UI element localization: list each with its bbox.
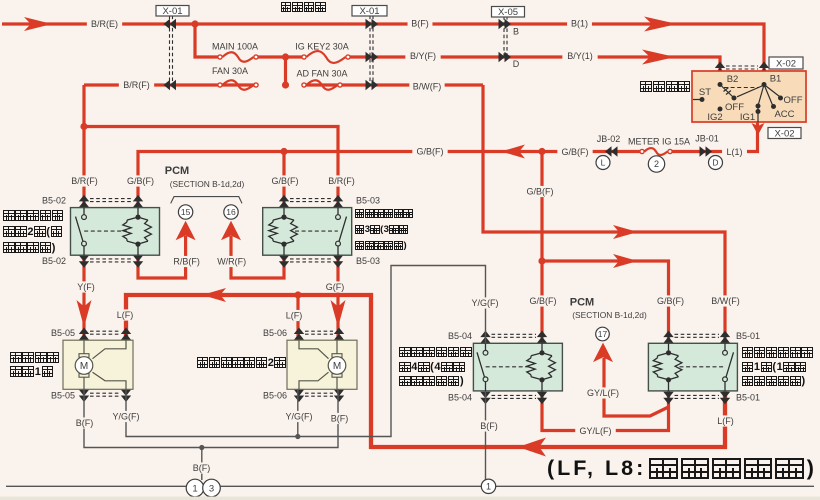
svg-text:Y/G(F): Y/G(F) xyxy=(113,412,140,422)
svg-text:G/B(F): G/B(F) xyxy=(272,176,299,186)
label B/W(F) relay 1 xyxy=(708,295,743,306)
label cooling fan relay No.4 line 2 xyxy=(399,361,465,373)
label cooling fan relay No.3 line 2 xyxy=(355,224,408,235)
svg-text:GY/L(F): GY/L(F) xyxy=(579,426,611,436)
flow arrow Y(F) into motor 1 xyxy=(77,300,92,327)
ignition switch terminal IG1 xyxy=(756,104,761,109)
svg-text:B5-02: B5-02 xyxy=(42,256,66,266)
connector X-05 dashed link xyxy=(504,16,507,57)
svg-text:JB-01: JB-01 xyxy=(695,134,719,144)
relay 2 (cooling fan relay No.2) xyxy=(71,208,160,256)
svg-text:IG1: IG1 xyxy=(740,112,755,123)
label Y/G(F) motor 1 xyxy=(108,411,143,422)
label cooling fan relay No.1 line 1 xyxy=(742,347,813,358)
connector box X-02 top xyxy=(769,57,803,69)
connector box X-01 left xyxy=(156,6,189,17)
relay 2 (cooling fan relay No.2) switch contact xyxy=(76,208,85,256)
relay 4 (cooling fan relay No.4) actuation link xyxy=(486,366,531,368)
svg-text:M: M xyxy=(80,361,88,372)
svg-text:B5-01: B5-01 xyxy=(736,393,760,403)
wire B(F) stub to ground xyxy=(201,448,203,481)
svg-text:3: 3 xyxy=(209,483,214,494)
label cooling fan relay No.3 line 3 xyxy=(355,240,407,251)
connector X-01 pin row3 xyxy=(164,80,177,90)
connector box X-01 right xyxy=(352,6,387,17)
label B(F) motor 2 xyxy=(327,413,352,424)
svg-text:B5-02: B5-02 xyxy=(42,195,66,205)
svg-text:B/R(F): B/R(F) xyxy=(328,176,355,186)
flow arrow B(1) to switch xyxy=(644,17,677,32)
label B(F) relay 4 xyxy=(477,420,502,431)
label Y/G(F) relay 4 xyxy=(467,297,502,308)
ignition switch body xyxy=(692,71,806,122)
connector JB-02 pin xyxy=(605,146,618,156)
connector box X-05 xyxy=(492,7,525,18)
svg-text:B2: B2 xyxy=(727,74,739,85)
connector X-02 pin B1 side xyxy=(759,62,769,75)
ignition switch terminal OFF-right xyxy=(778,96,783,101)
relay 1 (cooling fan relay No.1) coil xyxy=(658,343,679,391)
flow arrow L(F) toward motors xyxy=(202,288,226,302)
label cooling fan relay No.2 line 2 xyxy=(3,226,62,238)
connector B5-02 bottom dashed link of relay 2 xyxy=(90,259,132,262)
svg-text:B(F): B(F) xyxy=(331,414,349,424)
relay 3 (cooling fan relay No.3) coil xyxy=(273,208,294,256)
svg-text:B(1): B(1) xyxy=(571,19,588,29)
svg-text:X-01: X-01 xyxy=(162,6,182,17)
label B(F) ground stub xyxy=(189,462,214,473)
connector B5-02 top pin left of relay 2 xyxy=(79,195,89,208)
label cooling fan relay No.3 line 1 xyxy=(355,209,413,218)
svg-text:B5-04: B5-04 xyxy=(448,331,472,341)
svg-text:ST: ST xyxy=(699,87,711,98)
connector B5-04 top dashed link of relay 4 xyxy=(492,334,537,337)
flow arrow G/B(F) branch xyxy=(613,254,638,268)
connector B5-04 bottom pin left of relay 4 xyxy=(480,392,490,405)
svg-text:L(1): L(1) xyxy=(726,147,742,157)
wire GY/L(F) relay 4 to relay 1 xyxy=(542,392,669,431)
label cooling fan relay No.2 line 3 xyxy=(3,242,55,254)
svg-text:B/Y(F): B/Y(F) xyxy=(410,51,436,61)
ignition switch terminal IG1 lower xyxy=(756,109,761,114)
junction node fuse row 3 xyxy=(282,81,289,88)
svg-text:B/R(F): B/R(F) xyxy=(123,80,150,90)
bottom scan shadow xyxy=(0,497,820,500)
label G/B(F) relay 2 xyxy=(123,175,158,186)
connector B5-01 top pin left of relay 1 xyxy=(663,331,673,344)
connector B5-06 top pin left of fan motor 2 xyxy=(294,328,304,341)
label G/B(F) relay 1 xyxy=(653,295,688,306)
svg-text:15: 15 xyxy=(181,207,191,217)
fuse AD FAN 30A xyxy=(306,80,337,90)
svg-text:B/Y(1): B/Y(1) xyxy=(567,51,593,61)
flow arrow G(F) into motor 2 xyxy=(331,300,346,327)
connector B5-03 top dashed link of relay 3 xyxy=(290,199,332,202)
connector X-01 pin row1 xyxy=(164,19,177,29)
label B5-06 bottom of fan motor 2 xyxy=(260,390,290,401)
label G/B(F) at junction xyxy=(557,146,592,157)
junction node fuse row 2 xyxy=(282,53,289,60)
connector B5-06 bottom pin left of fan motor 2 xyxy=(294,390,304,403)
connector circle 2 xyxy=(648,156,664,172)
ignition switch terminal IG2 xyxy=(718,107,723,112)
svg-text:B5-06: B5-06 xyxy=(263,328,287,338)
connector B5-06 bottom dashed link of fan motor 2 xyxy=(305,393,333,396)
fan motor 1 xyxy=(63,340,133,389)
wire fuse-row interlink vertical xyxy=(284,57,287,85)
connector B5-05 top dashed link of fan motor 1 xyxy=(90,331,120,334)
svg-text:B5-01: B5-01 xyxy=(736,331,760,341)
connector X-01 right pin row1 xyxy=(366,19,379,29)
svg-text:B1: B1 xyxy=(770,73,782,84)
label B/R(F) relay 2 xyxy=(67,175,102,186)
svg-text:G/B(F): G/B(F) xyxy=(530,296,557,306)
connector X-02 pin B2 side xyxy=(715,62,725,75)
svg-text:G/B(F): G/B(F) xyxy=(127,176,154,186)
label G/B(F) relay 4 xyxy=(525,295,560,306)
svg-text:PCM: PCM xyxy=(165,165,189,177)
svg-text:L(F): L(F) xyxy=(117,310,134,320)
label B5-02 bottom of relay 2 xyxy=(39,255,69,266)
svg-text:B/W(F): B/W(F) xyxy=(413,82,442,92)
svg-text:(SECTION B-1d,2d): (SECTION B-1d,2d) xyxy=(170,179,245,189)
label GY/L(F) bottom xyxy=(575,425,616,436)
label ignition key (dian huo yao shi) xyxy=(281,2,326,12)
connector X-05 pin D xyxy=(499,52,512,62)
label B/W(F) row3 xyxy=(409,81,444,92)
connector B5-02 top pin right of relay 2 xyxy=(133,195,143,208)
svg-text:FAN 30A: FAN 30A xyxy=(212,66,248,76)
label B5-03 bottom of relay 3 xyxy=(353,255,383,266)
svg-text:B/R(F): B/R(F) xyxy=(71,176,98,186)
svg-text:PCM: PCM xyxy=(570,296,594,308)
wire B(F) relay 4 to ground xyxy=(485,392,487,487)
connector box X-02 bottom xyxy=(768,128,801,139)
svg-text:Y/G(F): Y/G(F) xyxy=(472,298,499,308)
svg-text:X-05: X-05 xyxy=(498,7,518,18)
connector B5-05 top pin left of fan motor 1 xyxy=(79,328,89,341)
svg-text:G/B(F): G/B(F) xyxy=(417,147,444,157)
connector B5-03 bottom dashed link of relay 3 xyxy=(290,259,332,262)
label G/B(F) relay 3 xyxy=(267,175,302,186)
label B5-03 top of relay 3 xyxy=(353,195,383,206)
svg-text:G/B(F): G/B(F) xyxy=(657,296,684,306)
flow arrow into PCM pin 15 xyxy=(176,221,196,241)
svg-text:M: M xyxy=(333,361,341,372)
flow arrow into PCM pin 16 xyxy=(221,221,241,241)
svg-text:D: D xyxy=(712,158,718,168)
label G(F) xyxy=(323,281,348,292)
connector X-01 left dashed link xyxy=(170,16,173,86)
fan motor 2 motor symbol M xyxy=(332,354,342,358)
wire L(F) run fan motors to relay 1 xyxy=(126,295,725,447)
fan motor 1 motor symbol M xyxy=(79,354,89,358)
label W/R(F) xyxy=(214,256,249,267)
connector B5-04 bottom pin right of relay 4 xyxy=(537,392,547,405)
wire G/B(F) drop to relay 3 xyxy=(282,152,285,208)
label B5-04 bottom of relay 4 xyxy=(445,392,475,403)
svg-text:B(F): B(F) xyxy=(411,19,429,29)
label B/R(F) relay 3 xyxy=(324,175,359,186)
ground connector 1 left xyxy=(186,479,204,497)
relay 2 (cooling fan relay No.2) actuation link xyxy=(84,230,127,232)
connector B5-04 top pin right of relay 4 xyxy=(537,331,547,344)
fuse FAN 30A xyxy=(222,80,253,90)
label B5-05 top of fan motor 1 xyxy=(48,327,78,338)
wire R/B(F) relay 2 to PCM pin 15 xyxy=(138,236,186,278)
svg-text:ACC: ACC xyxy=(774,109,794,120)
connector B5-05 bottom pin left of fan motor 1 xyxy=(79,390,89,403)
connector B5-01 bottom pin left of relay 1 xyxy=(663,392,673,405)
connector B5-02 top dashed link of relay 2 xyxy=(90,199,132,202)
label L(1) xyxy=(722,146,747,157)
label B/R(F) row3 xyxy=(119,79,154,90)
connector B5-05 top pin right of fan motor 1 xyxy=(121,328,131,341)
label fan motor 2 xyxy=(197,357,286,369)
label B/R(E) xyxy=(87,18,122,29)
connector B5-05 bottom dashed link of fan motor 1 xyxy=(90,393,120,396)
junction node G/B branch to relay 1 xyxy=(538,257,545,264)
label cooling fan relay No.1 line 2 xyxy=(742,361,806,373)
svg-text:G(F): G(F) xyxy=(326,282,345,292)
ignition switch terminal B1 xyxy=(762,82,767,87)
svg-text:1: 1 xyxy=(486,482,491,492)
label Y/G(F) motor 2 xyxy=(281,411,316,422)
junction node B/R branch xyxy=(80,123,87,130)
fan motor 1 internal wiring xyxy=(84,340,126,389)
label ignition switch (dian huo kai guan) xyxy=(640,81,690,92)
flow arrow ignition switch output at X-02 xyxy=(752,123,765,135)
connector JB-01 pin xyxy=(700,146,713,156)
relay 1 (cooling fan relay No.1) actuation link xyxy=(680,366,725,368)
svg-text:B(F): B(F) xyxy=(480,421,498,431)
PCM boundary bracket xyxy=(171,197,242,204)
connector circle D xyxy=(709,156,723,170)
svg-text:OFF: OFF xyxy=(784,95,803,106)
wire W/R(F) relay 3 to PCM pin 16 xyxy=(231,236,284,278)
ground connector 3 left xyxy=(203,479,221,497)
PCM pin 15 xyxy=(178,205,192,219)
ignition switch terminal ST xyxy=(700,97,705,102)
svg-text:Y(F): Y(F) xyxy=(77,282,95,292)
connector B5-02 bottom pin right of relay 2 xyxy=(133,255,143,268)
connector B5-01 top dashed link of relay 1 xyxy=(675,334,720,337)
junction node G/B at METER IG branch xyxy=(538,148,545,155)
relay 3 (cooling fan relay No.3) actuation link xyxy=(295,230,338,232)
PCM pin 17 xyxy=(596,327,610,341)
flow arrow L(F) big return arrow xyxy=(518,438,546,457)
connector B5-06 top dashed link of fan motor 2 xyxy=(305,331,333,334)
label Y(F) xyxy=(74,281,99,292)
ignition switch internal contacts and blades xyxy=(693,85,780,123)
wire B(F) rail between motors xyxy=(84,389,338,447)
connector B5-04 top pin left of relay 4 xyxy=(480,331,490,344)
junction node Y/G rail xyxy=(295,434,300,439)
connector circle L xyxy=(596,156,610,170)
junction node B rail xyxy=(199,445,204,450)
flow arrow B/R(E) input xyxy=(24,17,52,31)
svg-text:B: B xyxy=(513,27,519,37)
fuse IG KEY2 30A xyxy=(306,51,345,63)
label fan motor 1 line 2 xyxy=(10,366,53,378)
svg-text:L(F): L(F) xyxy=(717,416,734,426)
connector B5-03 bottom pin right of relay 3 xyxy=(333,255,343,268)
wire L(F) drop to fan motor 2 xyxy=(296,295,299,340)
svg-text:AD FAN 30A: AD FAN 30A xyxy=(296,69,347,79)
svg-text:B5-05: B5-05 xyxy=(51,328,75,338)
connector B5-01 bottom dashed link of relay 1 xyxy=(675,395,720,398)
svg-text:X-02: X-02 xyxy=(774,128,794,139)
wire G(F) relay 3 to fan motor 2 xyxy=(336,255,339,340)
svg-text:X-01: X-01 xyxy=(359,6,379,17)
relay 4 (cooling fan relay No.4) coil xyxy=(531,343,552,391)
wire G/B(F) vertical to relay 4 xyxy=(540,152,543,344)
wire Y/G(F) drop from motor 2 xyxy=(297,389,299,436)
ignition switch terminal B2 xyxy=(718,82,723,87)
svg-text:GY/L(F): GY/L(F) xyxy=(587,388,619,398)
svg-text:17: 17 xyxy=(598,329,608,339)
note (LF, L8: high heat zone) xyxy=(547,456,817,481)
relay 1 (cooling fan relay No.1) switch contact xyxy=(725,343,734,391)
PCM pin 16 xyxy=(224,205,238,219)
svg-text:B5-04: B5-04 xyxy=(448,393,472,403)
connector X-01 right pin row2 xyxy=(366,52,379,62)
flow arrow into PCM pin 17 xyxy=(593,343,613,363)
flow arrow B/Y(1) to switch xyxy=(642,50,675,65)
label G/B(F) switch feed xyxy=(412,146,447,157)
ground rail xyxy=(6,485,814,487)
relay 2 (cooling fan relay No.2) coil xyxy=(127,208,148,256)
fuse MAIN 100A xyxy=(222,52,253,62)
svg-text:B(F): B(F) xyxy=(193,463,211,473)
label fan motor 1 line 1 xyxy=(10,352,59,363)
label GY/L(F) PCM17 xyxy=(583,387,624,398)
connector B5-03 top pin left of relay 3 xyxy=(279,195,289,208)
label G/B(F) mid vertical xyxy=(522,186,557,197)
wire B/R(E)-B(F) row 1 top feed to ignition switch B1 xyxy=(2,24,764,71)
svg-text:L(F): L(F) xyxy=(286,311,303,321)
label METER IG 15A xyxy=(621,136,697,147)
connector B5-06 top pin right of fan motor 2 xyxy=(334,328,344,341)
label cooling fan relay No.4 line 1 xyxy=(399,347,472,358)
svg-text:L: L xyxy=(601,158,606,168)
label cooling fan relay No.1 line 3 xyxy=(742,375,805,387)
svg-text:1: 1 xyxy=(192,483,197,494)
connector B5-03 bottom pin left of relay 3 xyxy=(279,255,289,268)
label B/Y(1) xyxy=(562,50,597,61)
label B5-01 top of relay 1 xyxy=(733,330,763,341)
fuse METER IG 15A xyxy=(644,148,667,155)
connector B5-05 bottom pin right of fan motor 1 xyxy=(121,390,131,403)
ground connector 1 right xyxy=(481,479,495,493)
svg-text:W/R(F): W/R(F) xyxy=(217,257,246,267)
svg-text:Y/G(F): Y/G(F) xyxy=(286,412,313,422)
fan motor 2 internal wiring xyxy=(299,340,337,389)
connector X-01 right pin row3 xyxy=(366,80,379,90)
connector X-01 right dashed link xyxy=(370,16,373,86)
svg-text:B5-06: B5-06 xyxy=(263,390,287,400)
svg-text:16: 16 xyxy=(226,207,236,217)
wire G/B(F) branch to relay 1 xyxy=(542,261,669,343)
connector B5-02 bottom pin left of relay 2 xyxy=(79,255,89,268)
svg-text:(SECTION B-1d,2d): (SECTION B-1d,2d) xyxy=(572,310,647,320)
connector B5-03 top pin right of relay 3 xyxy=(333,195,343,208)
junction node row1/MAIN feed xyxy=(191,20,198,27)
connector X-05 pin B xyxy=(499,19,512,29)
label L(F) motor 2 xyxy=(282,310,307,321)
relay 1 (cooling fan relay No.1) xyxy=(648,343,737,391)
svg-text:G/B(F): G/B(F) xyxy=(562,147,589,157)
wire MAIN fuse feed drop and row 2 to ignition switch B2 xyxy=(195,24,720,71)
label B5-05 bottom of fan motor 1 xyxy=(48,390,78,401)
label R/B(F) xyxy=(169,256,204,267)
label B5-01 bottom of relay 1 xyxy=(733,392,763,403)
connector B5-01 top pin right of relay 1 xyxy=(720,331,730,344)
relay 3 (cooling fan relay No.3) switch contact xyxy=(338,208,347,256)
label B/Y(F) xyxy=(405,50,440,61)
svg-text:METER IG 15A: METER IG 15A xyxy=(628,137,690,147)
connector B5-01 bottom pin right of relay 1 xyxy=(720,392,730,405)
wire Y(F) relay 2 to fan motor 1 xyxy=(82,255,85,340)
label B5-04 top of relay 4 xyxy=(445,330,475,341)
label L(F) relay 1 xyxy=(713,415,738,426)
wire Y/G(F) rail motors to relay 4 xyxy=(126,266,486,437)
svg-text:X-02: X-02 xyxy=(776,58,796,69)
wire row 3 FAN/AD-FAN fuse row B/R(F)-B/W(F) xyxy=(84,83,483,86)
connector B5-04 bottom dashed link of relay 4 xyxy=(492,395,537,398)
relay 4 (cooling fan relay No.4) xyxy=(473,343,562,391)
wire B/R(F) left vertical to relay 2 xyxy=(82,85,85,208)
svg-text:B(F): B(F) xyxy=(76,418,94,428)
relay 4 (cooling fan relay No.4) switch contact xyxy=(477,343,486,391)
wire G/B(F) main run from relay 2 to ignition switch via METER IG fuse xyxy=(138,122,758,208)
label L(F) motor 1 xyxy=(113,309,138,320)
label B5-06 top of fan motor 2 xyxy=(260,327,290,338)
svg-text:D: D xyxy=(513,59,520,69)
fan motor 2 xyxy=(287,340,357,389)
wire B/W(F) vertical and branch to relay 1 coil-side pin xyxy=(483,85,725,343)
label cooling fan relay No.2 line 1 xyxy=(3,210,63,221)
flow arrow G/B(F) from switch xyxy=(501,145,525,159)
svg-text:JB-02: JB-02 xyxy=(597,134,621,144)
wire GY/L(F) branch to PCM pin 17 xyxy=(604,358,669,416)
ignition switch terminal OFF-left xyxy=(732,96,737,101)
svg-text:IG KEY2 30A: IG KEY2 30A xyxy=(295,42,349,52)
svg-text:G/B(F): G/B(F) xyxy=(527,187,554,197)
label B(F) motor 1 xyxy=(72,417,97,428)
svg-text:B/R(E): B/R(E) xyxy=(91,19,118,29)
connector X-02 dashed link xyxy=(726,66,758,69)
junction node L(F) at motor 2 xyxy=(294,291,301,298)
svg-text:IG2: IG2 xyxy=(707,112,722,123)
label B(F) xyxy=(408,18,433,29)
svg-text:B5-03: B5-03 xyxy=(356,195,380,205)
label cooling fan relay No.4 line 3 xyxy=(399,375,464,387)
svg-text:B5-05: B5-05 xyxy=(51,390,75,400)
label B5-02 top of relay 2 xyxy=(39,195,69,206)
flow arrow B/W(F) branch xyxy=(613,225,638,239)
relay 3 (cooling fan relay No.3) xyxy=(263,208,352,256)
svg-text:R/B(F): R/B(F) xyxy=(173,257,200,267)
label B(1) xyxy=(567,18,592,29)
junction node G/B at relay 3 drop xyxy=(280,148,287,155)
ignition switch terminal ACC xyxy=(771,104,776,109)
svg-text:2: 2 xyxy=(654,159,659,169)
wire B/R(F) branch to relay 3 xyxy=(84,127,338,208)
svg-text:B5-03: B5-03 xyxy=(356,256,380,266)
svg-text:MAIN 100A: MAIN 100A xyxy=(212,42,258,52)
connector B5-06 bottom pin right of fan motor 2 xyxy=(334,390,344,403)
